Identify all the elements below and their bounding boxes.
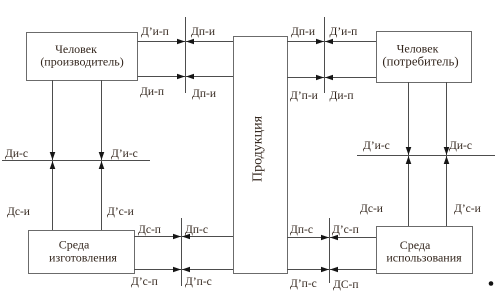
box: Человек (потребитель) bbox=[377, 32, 472, 83]
wire: producer down to workshop, right line bbox=[101, 80, 103, 230]
arrow left into tick, upper bbox=[182, 234, 190, 240]
arrow right into tick, lower bbox=[173, 267, 181, 273]
arrow up into tick, line 1 bbox=[406, 156, 412, 164]
arrow left into tick, lower bbox=[182, 267, 190, 273]
svg-text:Дп-с: Дп-с bbox=[290, 224, 313, 236]
arrow right into tick, lower bbox=[321, 267, 329, 273]
interface tick left-middle bbox=[2, 160, 150, 162]
box: Продукция bbox=[234, 37, 288, 274]
arrow down into tick, line 1 bbox=[406, 147, 412, 155]
arrow down into tick, line 1 bbox=[50, 152, 56, 160]
svg-text:Д’с-п: Д’с-п bbox=[131, 276, 158, 288]
svg-text:Дс-и: Дс-и bbox=[360, 203, 383, 215]
interface tick right-bottom bbox=[329, 218, 331, 283]
wire: workshop to product, lower bbox=[134, 269, 233, 271]
svg-text:(потребитель): (потребитель) bbox=[382, 55, 458, 69]
wire: workshop to product, upper bbox=[134, 236, 233, 238]
interface tick left-bottom bbox=[181, 218, 183, 286]
arrow right into tick, lower bbox=[177, 74, 185, 80]
wire: producer to product, lower bbox=[138, 76, 234, 78]
arrow up into tick, line 2 bbox=[99, 161, 105, 169]
arrow right into tick, upper bbox=[173, 234, 181, 240]
wire: product to usage env, lower bbox=[287, 269, 376, 271]
arrow up into tick, line 2 bbox=[444, 156, 450, 164]
arrow left into tick, upper bbox=[330, 235, 338, 241]
svg-text:Д’и-с: Д’и-с bbox=[363, 140, 390, 152]
arrow left into tick, upper bbox=[325, 39, 333, 45]
svg-text:Ди-п: Ди-п bbox=[330, 90, 354, 102]
box: Человек (производитель) bbox=[27, 33, 138, 81]
wire: consumer down to usage env, left line bbox=[408, 82, 410, 226]
svg-text:Дп-с: Дп-с bbox=[185, 224, 208, 236]
interface tick right-middle bbox=[357, 155, 495, 157]
arrow right into tick, upper bbox=[316, 39, 324, 45]
svg-text:Дп-и: Дп-и bbox=[291, 26, 315, 38]
arrow left into tick, lower bbox=[330, 267, 338, 273]
wire: consumer down to usage env, right line bbox=[446, 82, 448, 226]
svg-text:Д’с-п: Д’с-п bbox=[332, 224, 359, 236]
arrow left into tick, lower bbox=[186, 74, 194, 80]
arrow right into tick, upper bbox=[177, 39, 185, 45]
svg-text:Дп-и: Дп-и bbox=[191, 26, 215, 38]
svg-text:использования: использования bbox=[386, 251, 462, 265]
svg-text:Д’и-п: Д’и-п bbox=[141, 26, 169, 38]
arrow right into tick, lower bbox=[316, 75, 324, 81]
interface tick left-top bbox=[185, 17, 187, 93]
wire: product to consumer, lower bbox=[287, 77, 376, 79]
svg-text:Ди-с: Ди-с bbox=[449, 140, 472, 152]
svg-text:Человек: Человек bbox=[397, 42, 439, 56]
svg-text:Дп-и: Дп-и bbox=[192, 88, 216, 100]
svg-text:Д’п-с: Д’п-с bbox=[185, 276, 212, 288]
svg-text:Д’и-с: Д’и-с bbox=[111, 148, 138, 160]
svg-text:изготовления: изготовления bbox=[49, 251, 117, 265]
svg-text:Дс-п: Дс-п bbox=[138, 224, 161, 236]
interface tick right-top bbox=[324, 17, 326, 93]
arrow up into tick, line 1 bbox=[50, 161, 56, 169]
wire: product to usage env, upper bbox=[287, 237, 376, 239]
svg-text:ДС-п: ДС-п bbox=[333, 279, 359, 291]
box: Среда использования bbox=[377, 227, 473, 274]
arrow left into tick, upper bbox=[186, 39, 194, 45]
svg-text:Ди-с: Ди-с bbox=[5, 148, 28, 160]
svg-text:Д’п-с: Д’п-с bbox=[290, 278, 317, 290]
svg-text:(производитель): (производитель) bbox=[40, 55, 123, 69]
svg-text:Ди-п: Ди-п bbox=[140, 86, 164, 98]
arrow down into tick, line 2 bbox=[99, 152, 105, 160]
arrow right into tick, upper bbox=[321, 235, 329, 241]
svg-text:Д’с-и: Д’с-и bbox=[107, 206, 134, 218]
svg-text:Д’и-п: Д’и-п bbox=[330, 26, 358, 38]
svg-text:Д’п-и: Д’п-и bbox=[290, 90, 318, 102]
stray dot bottom-right bbox=[489, 281, 494, 286]
svg-text:Среда: Среда bbox=[59, 238, 90, 252]
box: Среда изготовления bbox=[29, 231, 135, 274]
wire: product to consumer, upper bbox=[287, 41, 376, 43]
svg-text:Продукция: Продукция bbox=[251, 115, 266, 182]
arrow left into tick, lower bbox=[325, 75, 333, 81]
arrow down into tick, line 2 bbox=[444, 147, 450, 155]
svg-text:Дс-и: Дс-и bbox=[7, 206, 30, 218]
wire: producer to product, upper bbox=[138, 41, 234, 43]
svg-text:Д’с-и: Д’с-и bbox=[454, 203, 481, 215]
wire: producer down to workshop, left line bbox=[52, 80, 54, 230]
